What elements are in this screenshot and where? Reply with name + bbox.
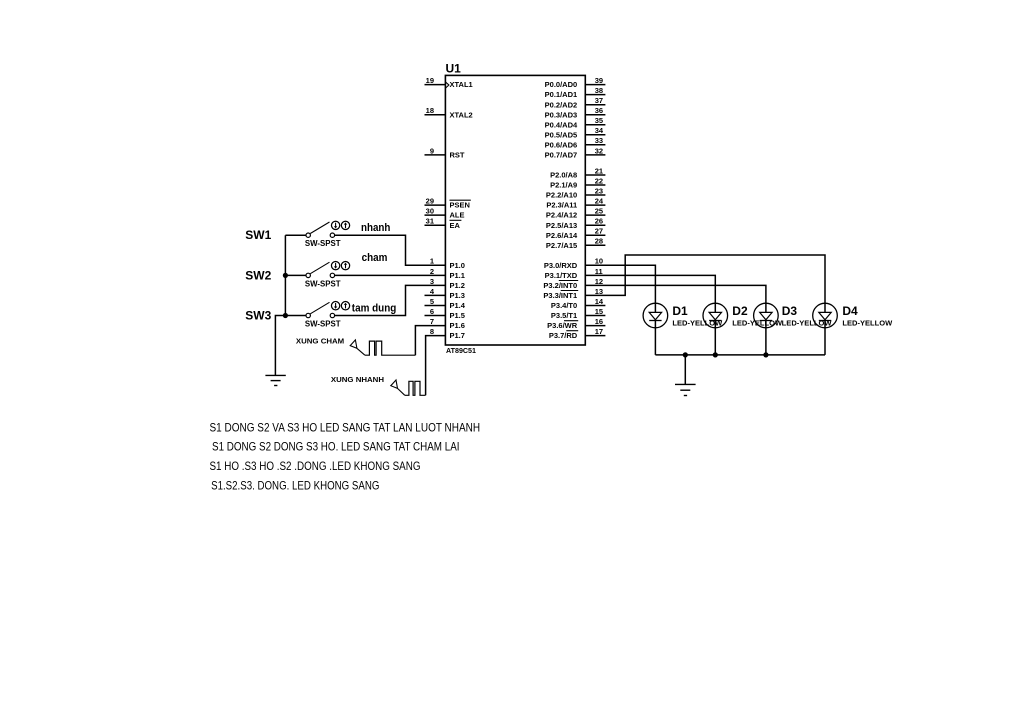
pin name P0.4/AD4 — [545, 120, 578, 129]
wire D1 cathode to bus — [654, 328, 656, 355]
svg-text:14: 14 — [595, 297, 604, 306]
pin name P2.5/A13 — [546, 221, 577, 230]
svg-text:SW3: SW3 — [245, 308, 271, 322]
svg-text:27: 27 — [595, 227, 603, 236]
pin name P2.7/A15 — [546, 241, 577, 250]
svg-text:7: 7 — [430, 317, 434, 326]
pin name P3.2/INT0 — [543, 281, 578, 291]
svg-text:S1 DONG S2 VA S3 HO LED SANG T: S1 DONG S2 VA S3 HO LED SANG TAT LAN LUO… — [210, 420, 481, 434]
pin 33 stub (P0.6/AD6) — [585, 144, 605, 146]
pin 25 stub (P2.4/A12) — [585, 214, 605, 216]
pin 28 stub (P2.7/A15) — [585, 244, 605, 246]
svg-text:15: 15 — [595, 307, 603, 316]
pin name P3.7/RD — [549, 331, 578, 341]
pin 34 stub (P0.5/AD5) — [585, 134, 605, 136]
pin 14 stub (P3.4/T0) — [585, 305, 605, 307]
junction at SW3 — [283, 313, 288, 318]
pin name P3.5/T1 — [551, 311, 577, 320]
svg-text:24: 24 — [595, 197, 604, 206]
SW2 toggle arrows — [331, 261, 349, 269]
svg-text:P1.5: P1.5 — [450, 311, 465, 320]
wire XUNG CHAM to chip — [415, 326, 445, 356]
pin number 3 — [430, 277, 434, 286]
value label SW-SPST (SW2) — [305, 279, 341, 288]
pin 18 stub (XTAL2) — [425, 114, 446, 116]
pin number 25 — [595, 207, 603, 216]
SW1 toggle arrows — [331, 221, 349, 229]
LED D4 — [813, 303, 838, 328]
pin number 28 — [595, 237, 603, 246]
svg-text:S1 HO .S3 HO .S2 .DONG .LED K: S1 HO .S3 HO .S2 .DONG .LED KHONG SANG — [210, 459, 421, 473]
svg-text:P2.3/A11: P2.3/A11 — [546, 201, 577, 210]
svg-text:37: 37 — [595, 96, 603, 105]
pin number 35 — [595, 116, 603, 125]
wire switch common bus — [275, 235, 285, 375]
value label LED-YELLOW (D3) — [782, 318, 833, 327]
value label AT89C51 — [446, 346, 476, 355]
pin number 27 — [595, 227, 603, 236]
wire pin 11 P3.1/TXD to D2 — [585, 275, 715, 303]
svg-text:XUNG CHAM: XUNG CHAM — [296, 336, 344, 345]
wire LED cathode bus — [655, 354, 825, 356]
svg-text:SW-SPST: SW-SPST — [305, 239, 341, 248]
svg-text:P1.2: P1.2 — [450, 281, 465, 290]
svg-text:RST: RST — [450, 151, 465, 160]
label SW1 — [245, 228, 271, 242]
svg-text:P1.4: P1.4 — [450, 301, 466, 310]
LED D2 — [703, 303, 728, 328]
svg-text:P3.4/T0: P3.4/T0 — [551, 301, 577, 310]
pin name P3.0/RXD — [544, 261, 578, 270]
svg-text:XTAL1: XTAL1 — [450, 80, 473, 89]
ground (LED side) — [675, 384, 696, 395]
pin number 39 — [595, 76, 603, 85]
pin number 1 — [430, 257, 434, 266]
svg-text:8: 8 — [430, 327, 434, 336]
label U1 — [446, 62, 462, 76]
wire SW1 to pin 1 (net nhanh) — [335, 235, 446, 265]
pin name P3.3/INT1 — [543, 291, 578, 301]
svg-text:D1: D1 — [672, 304, 688, 318]
pin 9 stub (RST) — [425, 154, 446, 156]
pin 15 stub (P3.5/T1) — [585, 315, 605, 317]
svg-text:26: 26 — [595, 217, 603, 226]
svg-text:P3.3/INT1: P3.3/INT1 — [543, 291, 577, 300]
pin number 11 — [595, 267, 603, 276]
pin number 30 — [426, 207, 434, 216]
generator XUNG CHAM label — [296, 336, 344, 345]
label D3 — [782, 304, 798, 318]
pin number 21 — [595, 166, 603, 175]
LED D3 — [754, 303, 779, 328]
wire XUNG NHANH to chip — [426, 336, 446, 396]
wire pin 10 P3.0/RXD to D1 — [585, 265, 655, 303]
svg-text:28: 28 — [595, 237, 603, 246]
svg-text:32: 32 — [595, 146, 603, 155]
svg-text:P2.2/A10: P2.2/A10 — [546, 191, 577, 200]
note line 4 — [211, 479, 379, 493]
pin number 10 — [595, 257, 603, 266]
value label LED-YELLOW (D2) — [732, 318, 783, 327]
svg-text:nhanh: nhanh — [361, 222, 391, 234]
pin name P2.1/A9 — [550, 181, 577, 190]
junction at SW2 — [283, 273, 288, 278]
svg-text:SW-SPST: SW-SPST — [305, 319, 341, 328]
svg-text:17: 17 — [595, 327, 603, 336]
pin 38 stub (P0.1/AD1) — [585, 94, 605, 96]
pin number 8 — [430, 327, 434, 336]
wire SW3 to pin 3 (net tam dung) — [335, 285, 446, 315]
pin name P0.1/AD1 — [545, 90, 578, 99]
pin number 38 — [595, 86, 603, 95]
svg-text:P3.2/INT0: P3.2/INT0 — [543, 281, 577, 290]
switch SW1 (SW-SPST) — [285, 222, 334, 237]
value label LED-YELLOW (D4) — [842, 318, 893, 327]
svg-text:P0.5/AD5: P0.5/AD5 — [545, 130, 578, 139]
svg-text:23: 23 — [595, 186, 603, 195]
switch SW2 (SW-SPST) — [285, 262, 334, 277]
svg-text:SW-SPST: SW-SPST — [305, 279, 341, 288]
LED D1 — [643, 303, 668, 328]
pin name P1.1 — [450, 271, 465, 280]
svg-text:36: 36 — [595, 106, 603, 115]
note line 1 — [210, 420, 481, 434]
label D1 — [672, 304, 688, 318]
value label SW-SPST (SW1) — [305, 239, 341, 248]
svg-text:1: 1 — [430, 257, 434, 266]
svg-text:P1.3: P1.3 — [450, 291, 465, 300]
pin number 33 — [595, 136, 603, 145]
pin name P1.3 — [450, 291, 465, 300]
pin name P1.4 — [450, 301, 466, 310]
pin number 29 — [426, 197, 434, 206]
svg-text:9: 9 — [430, 146, 434, 155]
svg-text:11: 11 — [595, 267, 603, 276]
svg-text:SW1: SW1 — [245, 228, 271, 242]
pin number 2 — [430, 267, 434, 276]
wire pin 13 P3.3/INT1 to D4 (top route) — [585, 255, 825, 303]
pin 4 stub (P1.3) — [425, 294, 446, 296]
note line 2 — [212, 439, 460, 453]
svg-text:35: 35 — [595, 116, 603, 125]
pin name P2.0/A8 — [550, 171, 577, 180]
svg-text:U1: U1 — [446, 62, 462, 76]
svg-text:P0.4/AD4: P0.4/AD4 — [545, 120, 578, 129]
svg-text:S1 DONG S2 DONG S3 HO. LED SAN: S1 DONG S2 DONG S3 HO. LED SANG TAT CHAM… — [212, 439, 460, 453]
wire D4 cathode to bus — [824, 328, 826, 355]
wire ground stem (LED side) — [684, 355, 686, 385]
pin number 19 — [426, 76, 434, 85]
svg-text:P0.7/AD7: P0.7/AD7 — [545, 151, 578, 160]
svg-text:P2.7/A15: P2.7/A15 — [546, 241, 577, 250]
junction at D3 — [763, 352, 768, 357]
svg-text:34: 34 — [595, 126, 604, 135]
svg-text:25: 25 — [595, 207, 603, 216]
label SW2 — [245, 268, 271, 282]
svg-text:XTAL2: XTAL2 — [450, 110, 473, 119]
pin 17 stub (P3.7/RD) — [585, 335, 605, 337]
svg-text:P3.5/T1: P3.5/T1 — [551, 311, 577, 320]
svg-text:39: 39 — [595, 76, 603, 85]
pin name P2.4/A12 — [546, 211, 577, 220]
junction at D2 — [713, 352, 718, 357]
svg-text:LED-YELLOW: LED-YELLOW — [842, 318, 893, 327]
pin number 34 — [595, 126, 604, 135]
switch SW3 (SW-SPST) — [285, 302, 334, 317]
svg-text:EA: EA — [450, 221, 461, 230]
pin name P0.0/AD0 — [545, 80, 578, 89]
svg-text:XUNG NHANH: XUNG NHANH — [331, 375, 384, 384]
pin 26 stub (P2.5/A13) — [585, 224, 605, 226]
pin name RST — [450, 151, 465, 160]
svg-text:P1.0: P1.0 — [450, 261, 465, 270]
svg-text:P0.3/AD3: P0.3/AD3 — [545, 110, 578, 119]
pin name P1.2 — [450, 281, 465, 290]
pin 27 stub (P2.6/A14) — [585, 234, 605, 236]
svg-text:3: 3 — [430, 277, 434, 286]
svg-text:33: 33 — [595, 136, 603, 145]
value label LED-YELLOW (D1) — [672, 318, 723, 327]
svg-text:18: 18 — [426, 106, 434, 115]
pin number 5 — [430, 297, 434, 306]
pin number 16 — [595, 317, 603, 326]
svg-text:29: 29 — [426, 197, 434, 206]
pin 37 stub (P0.2/AD2) — [585, 104, 605, 106]
pin name ALE — [450, 211, 465, 220]
pin 23 stub (P2.2/A10) — [585, 194, 605, 196]
svg-text:cham: cham — [362, 252, 388, 264]
svg-text:SW2: SW2 — [245, 268, 271, 282]
pin number 24 — [595, 197, 604, 206]
pin number 14 — [595, 297, 604, 306]
pin name P0.2/AD2 — [545, 100, 578, 109]
pin number 9 — [430, 146, 434, 155]
svg-text:D3: D3 — [782, 304, 798, 318]
svg-text:D4: D4 — [842, 304, 858, 318]
SW3 toggle arrows — [331, 302, 349, 310]
svg-text:2: 2 — [430, 267, 434, 276]
pin name P2.6/A14 — [546, 231, 578, 240]
label D4 — [842, 304, 858, 318]
pin number 13 — [595, 287, 603, 296]
pin name XTAL2 — [450, 110, 473, 119]
pin name PSEN — [450, 200, 471, 210]
pin 24 stub (P2.3/A11) — [585, 204, 605, 206]
svg-text:P1.1: P1.1 — [450, 271, 465, 280]
pin 31 stub (EA) — [425, 224, 446, 226]
pin 32 stub (P0.7/AD7) — [585, 154, 605, 156]
pin 39 stub (P0.0/AD0) — [585, 84, 605, 86]
pin name P2.2/A10 — [546, 191, 577, 200]
ground (switch side) — [265, 375, 285, 385]
pin number 7 — [430, 317, 434, 326]
pin number 4 — [430, 287, 435, 296]
pin number 18 — [426, 106, 434, 115]
svg-text:38: 38 — [595, 86, 603, 95]
svg-text:P2.1/A9: P2.1/A9 — [550, 181, 577, 190]
pin number 37 — [595, 96, 603, 105]
svg-text:P1.7: P1.7 — [450, 331, 465, 340]
wire pin 12 P3.2/INT0 to D3 — [585, 285, 766, 303]
svg-text:10: 10 — [595, 257, 603, 266]
svg-text:P0.0/AD0: P0.0/AD0 — [545, 80, 578, 89]
pin 22 stub (P2.1/A9) — [585, 184, 605, 186]
pin name P0.6/AD6 — [545, 140, 578, 149]
svg-text:6: 6 — [430, 307, 434, 316]
svg-text:P3.7/RD: P3.7/RD — [549, 331, 578, 340]
generator XUNG CHAM symbol — [350, 340, 415, 355]
svg-text:PSEN: PSEN — [450, 201, 470, 210]
svg-text:P3.1/TXD: P3.1/TXD — [545, 271, 578, 280]
net label nhanh — [361, 222, 391, 234]
svg-text:tam dung: tam dung — [352, 302, 397, 314]
pin name P3.6/WR — [547, 321, 578, 331]
net label tam dung — [352, 302, 397, 314]
svg-text:P3.6/WR: P3.6/WR — [547, 321, 578, 330]
wire D2 cathode to bus — [714, 328, 716, 355]
label SW3 — [245, 308, 271, 322]
pin name EA — [450, 220, 462, 230]
svg-text:21: 21 — [595, 166, 603, 175]
pin number 36 — [595, 106, 603, 115]
pin 30 stub (ALE) — [425, 214, 446, 216]
note line 3 — [210, 459, 421, 473]
pin number 15 — [595, 307, 603, 316]
net label cham — [362, 252, 388, 264]
pin number 32 — [595, 146, 603, 155]
pin 36 stub (P0.3/AD3) — [585, 114, 605, 116]
svg-text:13: 13 — [595, 287, 603, 296]
clock marker on pin 19 XTAL1 — [446, 82, 449, 88]
pin name P1.5 — [450, 311, 465, 320]
pin name P0.3/AD3 — [545, 110, 578, 119]
svg-text:5: 5 — [430, 297, 434, 306]
svg-text:19: 19 — [426, 76, 434, 85]
value label SW-SPST (SW3) — [305, 319, 341, 328]
svg-text:P2.5/A13: P2.5/A13 — [546, 221, 577, 230]
pin 35 stub (P0.4/AD4) — [585, 124, 605, 126]
pin number 17 — [595, 327, 603, 336]
pin 5 stub (P1.4) — [425, 305, 446, 307]
svg-text:30: 30 — [426, 207, 434, 216]
pin name P1.0 — [450, 261, 465, 270]
pin 21 stub (P2.0/A8) — [585, 174, 605, 176]
IC U1 AT89C51 body — [445, 75, 585, 345]
wire D3 cathode to bus — [765, 328, 767, 355]
svg-text:31: 31 — [426, 217, 434, 226]
label D2 — [732, 304, 748, 318]
svg-text:P2.6/A14: P2.6/A14 — [546, 231, 578, 240]
pin name P3.1/TXD — [545, 271, 578, 280]
junction at ground stem — [683, 352, 688, 357]
svg-text:P0.2/AD2: P0.2/AD2 — [545, 100, 578, 109]
pin number 12 — [595, 277, 603, 286]
pin name XTAL1 — [450, 80, 473, 89]
svg-text:P1.6: P1.6 — [450, 321, 465, 330]
pin 16 stub (P3.6/WR) — [585, 325, 605, 327]
pin number 23 — [595, 186, 603, 195]
svg-text:D2: D2 — [732, 304, 748, 318]
pin 6 stub (P1.5) — [425, 315, 446, 317]
pin name P1.7 — [450, 331, 465, 340]
pin number 6 — [430, 307, 434, 316]
pin 29 stub (PSEN) — [425, 204, 446, 206]
pin name P0.7/AD7 — [545, 151, 578, 160]
pin number 31 — [426, 217, 434, 226]
svg-text:P2.4/A12: P2.4/A12 — [546, 211, 577, 220]
pin name P0.5/AD5 — [545, 130, 578, 139]
svg-text:P0.1/AD1: P0.1/AD1 — [545, 90, 578, 99]
pin name P3.4/T0 — [551, 301, 577, 310]
pin name P1.6 — [450, 321, 465, 330]
svg-text:P2.0/A8: P2.0/A8 — [550, 171, 577, 180]
pin name P2.3/A11 — [546, 201, 577, 210]
generator XUNG NHANH label — [331, 375, 384, 384]
pin number 26 — [595, 217, 603, 226]
wire SW2 to pin 2 (net cham) — [335, 274, 446, 276]
pin 19 stub (XTAL1) — [425, 84, 446, 86]
svg-text:P0.6/AD6: P0.6/AD6 — [545, 140, 578, 149]
pin number 22 — [595, 176, 603, 185]
svg-text:S1.S2.S3. DONG. LED KHONG SANG: S1.S2.S3. DONG. LED KHONG SANG — [211, 479, 379, 493]
generator XUNG NHANH symbol — [391, 380, 426, 395]
svg-text:12: 12 — [595, 277, 603, 286]
svg-text:16: 16 — [595, 317, 603, 326]
svg-text:P3.0/RXD: P3.0/RXD — [544, 261, 578, 270]
svg-text:22: 22 — [595, 176, 603, 185]
svg-text:AT89C51: AT89C51 — [446, 346, 476, 355]
svg-text:ALE: ALE — [450, 211, 465, 220]
